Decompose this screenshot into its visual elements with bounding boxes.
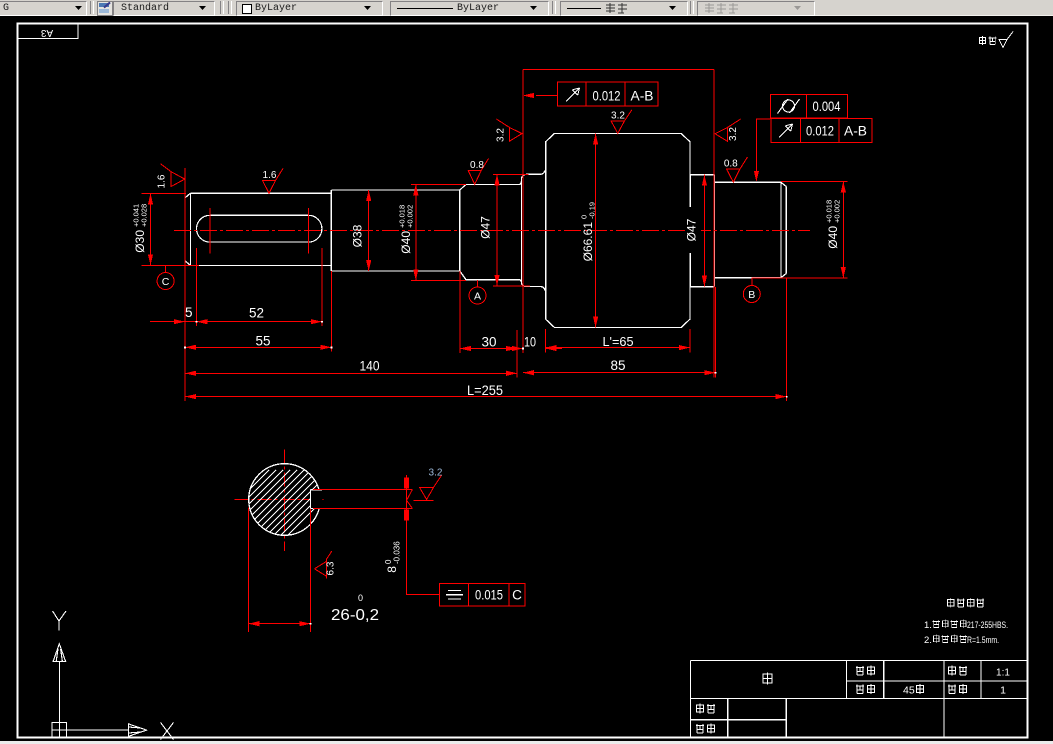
section S3 Ø47 left with corner chamfers (460, 178, 522, 284)
roughness 0.8 on Ø47 left (468, 159, 488, 185)
roughness 1.6 on keyway section (263, 169, 284, 194)
roughness 3.2 rotated on left shoulder (496, 119, 522, 142)
extension Ø40R dim top y=181.3 (781, 180, 848, 182)
svg-text:Ø66.61: Ø66.61 (581, 222, 595, 262)
svg-text:-0.19: -0.19 (588, 202, 597, 219)
svg-text:L'=65: L'=65 (603, 334, 634, 349)
keyway slot (stadium) (197, 215, 322, 242)
roughness 3.2 on big section (611, 110, 632, 134)
svg-text:L=255: L=255 (467, 383, 503, 398)
svg-text:+0.002: +0.002 (833, 200, 842, 223)
long extension x=713.9 (fcf frame right) (713, 69, 715, 377)
dim 10 (arrows outside) (505, 335, 562, 352)
linetype combo ByLayer (390, 1, 549, 16)
style icon button (97, 1, 113, 16)
svg-text:0.8: 0.8 (724, 158, 738, 169)
extension keyway right x=321.9 (321, 248, 323, 326)
section S6 Ø47 right (690, 175, 714, 287)
lineweight combo default (560, 1, 688, 16)
keyway arc centerlines (210, 208, 309, 254)
svg-text:55: 55 (256, 334, 271, 349)
roughness 6.3 rotated (315, 551, 337, 579)
fcf leader right: down to journal (754, 119, 771, 182)
section centerlines (235, 449, 327, 551)
svg-text:3.2: 3.2 (611, 110, 625, 121)
dim 85 (523, 358, 716, 375)
svg-text:0.012: 0.012 (806, 124, 834, 139)
extension right journal end x=786.6 (786, 278, 788, 401)
svg-text:3.2: 3.2 (496, 128, 507, 142)
fcf runout 0.012 A-B (left, above big section) (523, 82, 658, 106)
dimension definition points (white dots) (184, 321, 787, 625)
section S4 relief collar (522, 170, 546, 292)
extension lines for 26 dim (248, 508, 310, 632)
dim 30 (460, 335, 517, 352)
svg-text:Ø30: Ø30 (133, 230, 147, 253)
text style combo Standard (113, 1, 215, 16)
svg-text:Ø38: Ø38 (351, 224, 365, 247)
svg-text:1: 1 (1000, 685, 1006, 697)
surface-roughness "rest" symbol 其余 top-right (979, 32, 1013, 48)
svg-text:A-B: A-B (844, 124, 867, 139)
roughness 3.2 rotated on right shoulder (715, 119, 741, 141)
main centerline (174, 229, 810, 231)
材料 (856, 685, 864, 694)
color combo ByLayer (236, 1, 383, 16)
svg-text:1:1: 1:1 (996, 668, 1010, 679)
svg-text:C: C (162, 276, 170, 288)
svg-text:A3: A3 (40, 27, 53, 38)
datum B (743, 278, 760, 303)
svg-text:3.2: 3.2 (429, 468, 443, 479)
fcf runout 0.012 A-B (right) (771, 118, 872, 142)
keyway width extension lines (313, 490, 412, 509)
svg-text:1.6: 1.6 (157, 174, 168, 188)
fcf cylindricity 0.004 (right top) (770, 94, 847, 118)
制图 (696, 704, 704, 714)
svg-text:1.: 1. (924, 620, 932, 631)
extension keyway left x=196.5 (196, 248, 198, 326)
roughness 1.6 rotated at left end face (157, 164, 185, 189)
dim Ø47 right (with text mask) (685, 175, 708, 287)
datum C (157, 265, 174, 289)
dim L=255 (185, 383, 787, 399)
dim Ø47 left (479, 174, 500, 286)
svg-text:0.8: 0.8 (470, 160, 484, 171)
extension Ø40R dim bottom y=278.1 (752, 277, 848, 279)
svg-text:R=1.5mm.: R=1.5mm. (967, 635, 999, 646)
extension x=517.2 (516, 330, 518, 378)
svg-text:1.6: 1.6 (263, 170, 277, 181)
dim Ø66.61 0/-0.19 (580, 133, 599, 327)
toolbar separator (90, 1, 94, 14)
svg-text:B: B (748, 289, 755, 301)
dim L'=65 (546, 334, 690, 350)
svg-text:85: 85 (611, 358, 626, 373)
dim 55 (185, 334, 331, 350)
svg-text:26-0,2: 26-0,2 (331, 607, 379, 624)
fcf symmetry 0.015 C (406, 523, 525, 606)
dim 140 (185, 359, 517, 376)
轴 (763, 672, 773, 684)
layer combo (partial) (0, 1, 87, 16)
long extension line left end x=184.8 (184, 168, 186, 401)
dim 52 (197, 306, 322, 325)
数量 (948, 685, 956, 694)
extension Ø47L dim top y=174.3 (493, 173, 529, 175)
dim 5 (150, 305, 197, 324)
svg-text:C: C (512, 588, 522, 603)
svg-text:45: 45 (903, 685, 915, 697)
svg-text:52: 52 (249, 306, 264, 321)
svg-text:30: 30 (482, 335, 497, 350)
extension big-section right x=690 (689, 329, 691, 353)
extension 85-dim right x=715.4 (714, 287, 716, 378)
dim Ø38 (351, 190, 372, 271)
图号 (856, 666, 864, 675)
fcf frame top line (523, 68, 714, 70)
svg-text:Ø47: Ø47 (479, 216, 493, 239)
svg-text:3.2: 3.2 (728, 127, 739, 141)
svg-text:A-B: A-B (631, 89, 654, 104)
section circle with hatch and keyway (230, 464, 353, 551)
extension Ø30 dim top y=193.4 (141, 192, 186, 194)
svg-text:0.004: 0.004 (813, 99, 841, 114)
roughness 3.2 at keyway side (blue text) (407, 468, 443, 509)
svg-text:6.3: 6.3 (326, 561, 337, 575)
审核 (696, 724, 704, 733)
svg-text:10: 10 (524, 335, 536, 350)
extension Ø40L dim top y=184.3 (411, 183, 466, 185)
svg-text:140: 140 (360, 359, 380, 374)
svg-text:+0.028: +0.028 (140, 204, 149, 227)
svg-text:Ø47: Ø47 (685, 218, 699, 241)
dim 26 0/-0.2 (248, 593, 379, 626)
plot style combo (disabled) (697, 1, 815, 16)
A3 label box (18, 24, 79, 39)
section S2 Ø38/Ø40 (331, 190, 460, 271)
section S7 journal Ø40 right with end chamfer (714, 182, 786, 277)
svg-text:217-255HBS.: 217-255HBS. (967, 620, 1008, 631)
svg-text:+0.002: +0.002 (406, 205, 415, 228)
svg-text:5: 5 (185, 305, 193, 320)
section S5 big Ø66.61 with corner chamfers (546, 133, 690, 327)
extension Ø38 end x=459.8 (459, 271, 461, 353)
svg-text:8: 8 (385, 566, 399, 573)
dim Ø30 +0.041/+0.028 (132, 193, 154, 265)
svg-text:0: 0 (358, 593, 363, 603)
svg-text:Ø40: Ø40 (399, 231, 413, 254)
dim Ø40 +0.018/+0.002 left (398, 184, 419, 280)
dim 8 0/-0.036 (384, 475, 409, 573)
svg-text:0.012: 0.012 (593, 89, 621, 104)
extension Ø30 end x=331.3 (330, 271, 332, 352)
dim Ø40 +0.018/+0.002 right (825, 181, 846, 278)
比例 (948, 666, 956, 676)
section S1 Ø30 with left chamfer (185, 193, 331, 265)
extension Ø47L dim bottom y=285.9 (493, 285, 530, 287)
svg-text:Ø40: Ø40 (826, 226, 840, 249)
long extension x=522.8 (fcf frame left) (522, 69, 524, 353)
title block texts (696, 666, 1011, 734)
command-line strip at very bottom (0, 741, 1053, 744)
roughness 0.8 on right journal (724, 157, 748, 182)
extension Ø40L dim bottom y=280.3 (411, 279, 466, 281)
svg-text:2.: 2. (924, 635, 932, 646)
svg-text:0.015: 0.015 (475, 588, 503, 603)
datum A (469, 280, 486, 304)
svg-text:-0.036: -0.036 (393, 541, 402, 564)
extension Ø30 dim bottom y=265.3 (141, 264, 199, 266)
extension big-section left x=545.6 (545, 329, 547, 353)
svg-text:A: A (474, 291, 481, 303)
